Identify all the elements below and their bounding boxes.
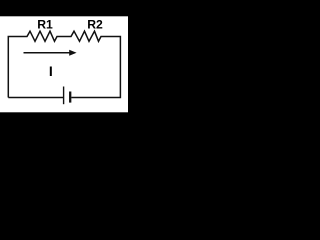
svg-text:R2: R2 <box>87 18 103 32</box>
svg-text:R1: R1 <box>37 18 53 32</box>
svg-text:I: I <box>49 63 53 79</box>
